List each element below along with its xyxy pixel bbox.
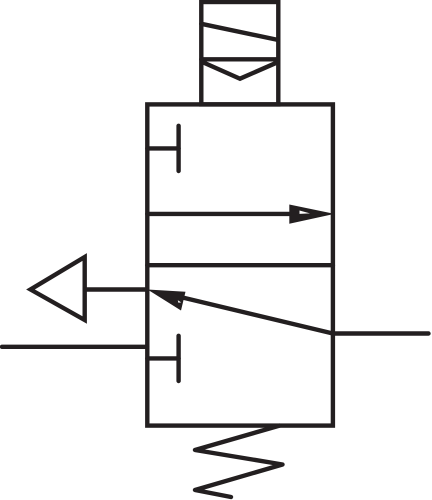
- blocked port T1 bar: [176, 126, 180, 171]
- blocked port T2 stem: [147, 356, 178, 360]
- flow arrow 1 shaft: [147, 212, 295, 216]
- flow arrow 2 head notch: [178, 300, 181, 303]
- flow arrow 1 head: [289, 205, 334, 224]
- pilot separator line: [201, 57, 278, 61]
- exhaust triangle: [31, 257, 85, 320]
- flow arrow 2 shaft: [182, 297, 333, 333]
- blocked port T1 stem: [147, 146, 178, 150]
- right port line: [333, 331, 429, 335]
- flow arrow 1 head notch: [300, 211, 311, 214]
- left port line: [2, 345, 147, 349]
- pilot diagonal lever: [201, 24, 278, 40]
- pilot actuator box: [201, 2, 278, 104]
- position divider: [147, 263, 333, 267]
- flow arrow 2 head: [148, 290, 186, 311]
- valve body: [147, 104, 333, 425]
- blocked port T2 bar: [176, 336, 180, 381]
- exhaust connection line: [85, 287, 148, 291]
- return spring: [195, 426, 283, 497]
- pilot chevron seat: [204, 63, 276, 79]
